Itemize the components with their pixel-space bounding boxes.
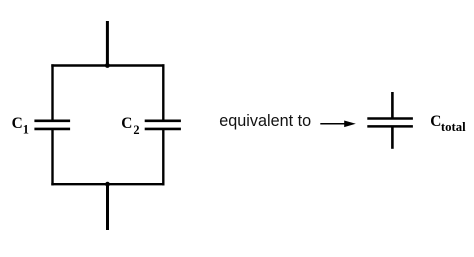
wire left edge upper segment [51,64,53,121]
wire equivalent bottom lead [391,126,394,148]
wire left edge lower segment [51,129,53,186]
wire top edge [51,64,164,66]
node bottom junction [105,182,110,187]
label equivalent to [219,112,311,131]
wire top stub [106,21,109,67]
label C1 [12,115,29,137]
wire right edge upper segment [162,64,164,121]
capacitor C1 plates [34,121,70,129]
arrow [320,121,356,128]
capacitor Ctotal plates [367,119,413,127]
wire bottom stub [106,183,109,230]
label Ctotal [430,113,465,135]
node top junction [105,63,110,68]
wire equivalent top lead [391,92,394,119]
label C2 [121,115,139,137]
capacitor C2 plates [145,121,181,129]
wire right edge lower segment [162,129,164,186]
wire bottom edge [51,183,164,185]
